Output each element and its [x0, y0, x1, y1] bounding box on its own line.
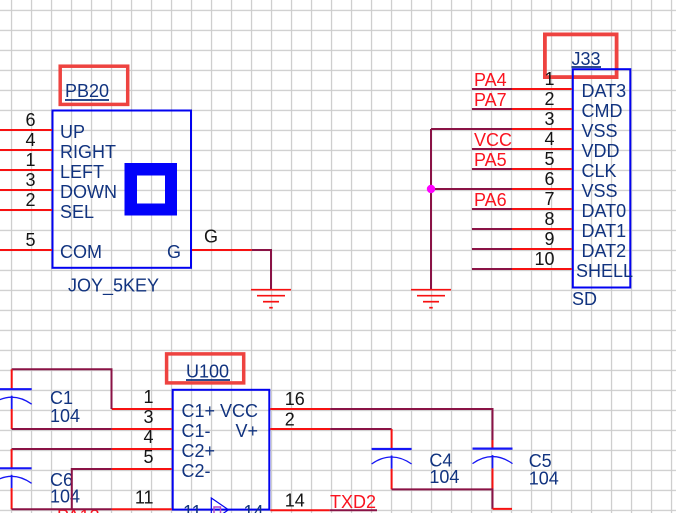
wire stub pin 5	[472, 168, 512, 170]
wire stub pin 2	[472, 108, 512, 110]
svg-text:104: 104	[429, 467, 459, 487]
label C1	[50, 388, 80, 426]
svg-text:4: 4	[143, 427, 153, 447]
capacitor C4	[372, 449, 412, 469]
svg-text:VCC: VCC	[474, 130, 512, 150]
svg-text:DAT0: DAT0	[582, 201, 627, 221]
svg-text:CLK: CLK	[582, 161, 617, 181]
svg-text:VSS: VSS	[582, 181, 618, 201]
svg-text:3: 3	[544, 109, 554, 129]
svg-text:5: 5	[143, 447, 153, 467]
wire TXD2	[330, 509, 377, 511]
pin 2 (CMD) of J33	[512, 89, 623, 121]
pin 4 (VDD) of J33	[512, 129, 620, 161]
pin 5 (COM) of JOY_5KEY	[0, 230, 102, 262]
wire stub pin 7	[472, 208, 512, 210]
svg-text:4: 4	[25, 130, 35, 150]
svg-text:8: 8	[544, 209, 554, 229]
svg-text:C1+: C1+	[182, 401, 216, 421]
wire pin2 net to C4 column	[330, 428, 392, 430]
capacitor C5	[473, 449, 513, 469]
pin G of JOY_5KEY	[167, 242, 252, 262]
ground rail wire (vertical)	[430, 129, 432, 290]
svg-text:4: 4	[544, 129, 554, 149]
ground symbol (J33)	[411, 290, 451, 308]
wire pin16 net to C5 column	[330, 409, 492, 440]
svg-text:SHELL: SHELL	[576, 261, 633, 281]
svg-text:RIGHT: RIGHT	[60, 142, 116, 162]
pin 1 (LEFT) of JOY_5KEY	[0, 150, 104, 182]
svg-text:VCC: VCC	[220, 401, 258, 421]
wire stub pin 1	[472, 88, 512, 90]
svg-text:14: 14	[244, 502, 264, 513]
designator J33	[572, 49, 602, 69]
pin 1 (DAT3) of J33	[512, 69, 626, 101]
svg-text:TXD2: TXD2	[330, 492, 376, 512]
wire stub pin 4	[472, 148, 512, 150]
capacitor C5 bottom lead	[492, 468, 494, 489]
svg-text:J33: J33	[572, 49, 601, 69]
svg-text:LEFT: LEFT	[60, 162, 104, 182]
wire pin5 net down to bottom rail	[72, 469, 112, 509]
svg-text:VSS: VSS	[582, 121, 618, 141]
pin 3 (DOWN) of JOY_5KEY	[0, 170, 117, 202]
pin 9 (DAT2) of J33	[512, 229, 626, 261]
wire pin 6 to ground rail	[431, 188, 512, 190]
svg-text:VDD: VDD	[582, 141, 620, 161]
svg-text:C2-: C2-	[182, 461, 211, 481]
pin 4 (RIGHT) of JOY_5KEY	[0, 130, 116, 162]
svg-text:DAT1: DAT1	[582, 221, 627, 241]
wire C1 bottom to pin3	[12, 428, 112, 430]
pin 10 (SHELL) of J33	[512, 249, 633, 281]
svg-text:5: 5	[25, 230, 35, 250]
pin 11 of U100	[112, 487, 172, 509]
svg-text:PA6: PA6	[474, 190, 507, 210]
svg-text:SEL: SEL	[60, 202, 94, 222]
svg-text:G: G	[167, 242, 181, 262]
designator highlight box PB20	[60, 66, 128, 104]
svg-text:DOWN: DOWN	[60, 182, 117, 202]
svg-text:UP: UP	[60, 122, 85, 142]
svg-text:PA5: PA5	[474, 150, 507, 170]
label C4	[429, 451, 459, 488]
svg-text:G: G	[204, 227, 218, 247]
svg-text:2: 2	[25, 190, 35, 210]
designator highlight box U100	[167, 354, 244, 383]
svg-text:1: 1	[544, 69, 554, 89]
svg-text:6: 6	[544, 169, 554, 189]
svg-text:104: 104	[50, 487, 80, 507]
svg-text:6: 6	[25, 110, 35, 130]
pin 3 (C1-) of U100	[112, 407, 211, 441]
svg-text:1: 1	[25, 150, 35, 170]
designator highlight box J33	[545, 34, 617, 77]
capacitor C4 top lead	[391, 429, 393, 449]
svg-text:11: 11	[135, 487, 154, 507]
violet marker	[214, 507, 221, 516]
capacitor C1 bottom lead	[11, 409, 13, 429]
capacitor C1	[0, 389, 32, 409]
capacitor C6 top lead	[11, 449, 13, 468]
capacitor C1 top lead	[11, 369, 13, 389]
svg-text:C2+: C2+	[182, 441, 216, 461]
svg-text:PA4: PA4	[474, 70, 507, 90]
pin 6 (UP) of JOY_5KEY	[0, 110, 85, 142]
pin 4 (C2+) of U100	[112, 427, 215, 461]
junction dot	[427, 185, 435, 193]
svg-text:PB20: PB20	[65, 81, 109, 101]
svg-text:COM: COM	[60, 242, 102, 262]
svg-text:1: 1	[143, 387, 153, 407]
designator PB20	[65, 81, 109, 101]
pin 5 (C2-) of U100	[112, 447, 211, 481]
joystick icon (blue square)	[125, 163, 178, 216]
svg-text:7: 7	[544, 189, 554, 209]
wire stub pin 8	[472, 228, 512, 230]
wire G net to ground	[252, 250, 271, 290]
capacitor C6 bottom lead	[11, 488, 13, 509]
svg-text:2: 2	[544, 89, 554, 109]
svg-text:9: 9	[544, 229, 554, 249]
label C6	[50, 470, 80, 507]
capacitor C4 bottom lead	[391, 469, 393, 490]
pin 6 (VSS) of J33	[512, 169, 618, 201]
ground symbol (JOY)	[251, 290, 291, 308]
svg-text:104: 104	[50, 406, 80, 426]
IC body U100	[173, 390, 270, 510]
pin 7 (DAT0) of J33	[512, 189, 626, 221]
svg-text:DAT2: DAT2	[582, 241, 627, 261]
wire stub pin 9	[472, 248, 512, 250]
driver triangle symbol inside U100	[211, 498, 228, 518]
svg-text:C1-: C1-	[182, 421, 211, 441]
svg-text:SD: SD	[572, 289, 597, 309]
svg-text:5: 5	[544, 149, 554, 169]
svg-text:JOY_5KEY: JOY_5KEY	[68, 276, 159, 297]
svg-text:3: 3	[25, 170, 35, 190]
wire pin 3 to ground rail	[431, 128, 512, 130]
svg-text:104: 104	[529, 469, 559, 489]
svg-text:10: 10	[534, 249, 554, 269]
pin 1 (C1+) of U100	[112, 387, 215, 421]
pin 14 (TXD2) of U100	[270, 491, 329, 511]
capacitor C6	[0, 468, 32, 488]
svg-text:14: 14	[285, 491, 305, 511]
svg-text:16: 16	[285, 389, 305, 409]
svg-text:U100: U100	[186, 362, 229, 382]
designator U100	[186, 362, 230, 382]
svg-text:DAT3: DAT3	[582, 81, 627, 101]
pin 2 (V+) of U100	[235, 410, 330, 442]
wire pin4 to C6 top	[12, 448, 112, 450]
svg-text:V+: V+	[235, 421, 258, 441]
joystick component body JOY_5KEY	[53, 111, 192, 268]
pin 3 (VSS) of J33	[512, 109, 618, 141]
capacitor C5 top lead	[492, 440, 494, 449]
pin 8 (DAT1) of J33	[512, 209, 626, 241]
lead exiting right at bottom	[493, 508, 513, 510]
wire bottom rail C4-C5	[392, 489, 493, 509]
pin 16 (VCC) of U100	[220, 389, 330, 421]
pin 2 (SEL) of JOY_5KEY	[0, 190, 94, 222]
wire bottom rail C6/pin11	[12, 508, 112, 510]
svg-text:3: 3	[143, 407, 153, 427]
wire stub pin 10	[472, 268, 512, 270]
wire pin1 net to C1 top	[12, 369, 112, 409]
pin 5 (CLK) of J33	[512, 149, 617, 181]
svg-text:CMD: CMD	[582, 101, 623, 121]
svg-text:11: 11	[183, 502, 202, 513]
label C5	[529, 451, 559, 489]
svg-text:2: 2	[285, 410, 295, 430]
connector body J33	[573, 69, 631, 287]
svg-text:PA7: PA7	[474, 90, 507, 110]
